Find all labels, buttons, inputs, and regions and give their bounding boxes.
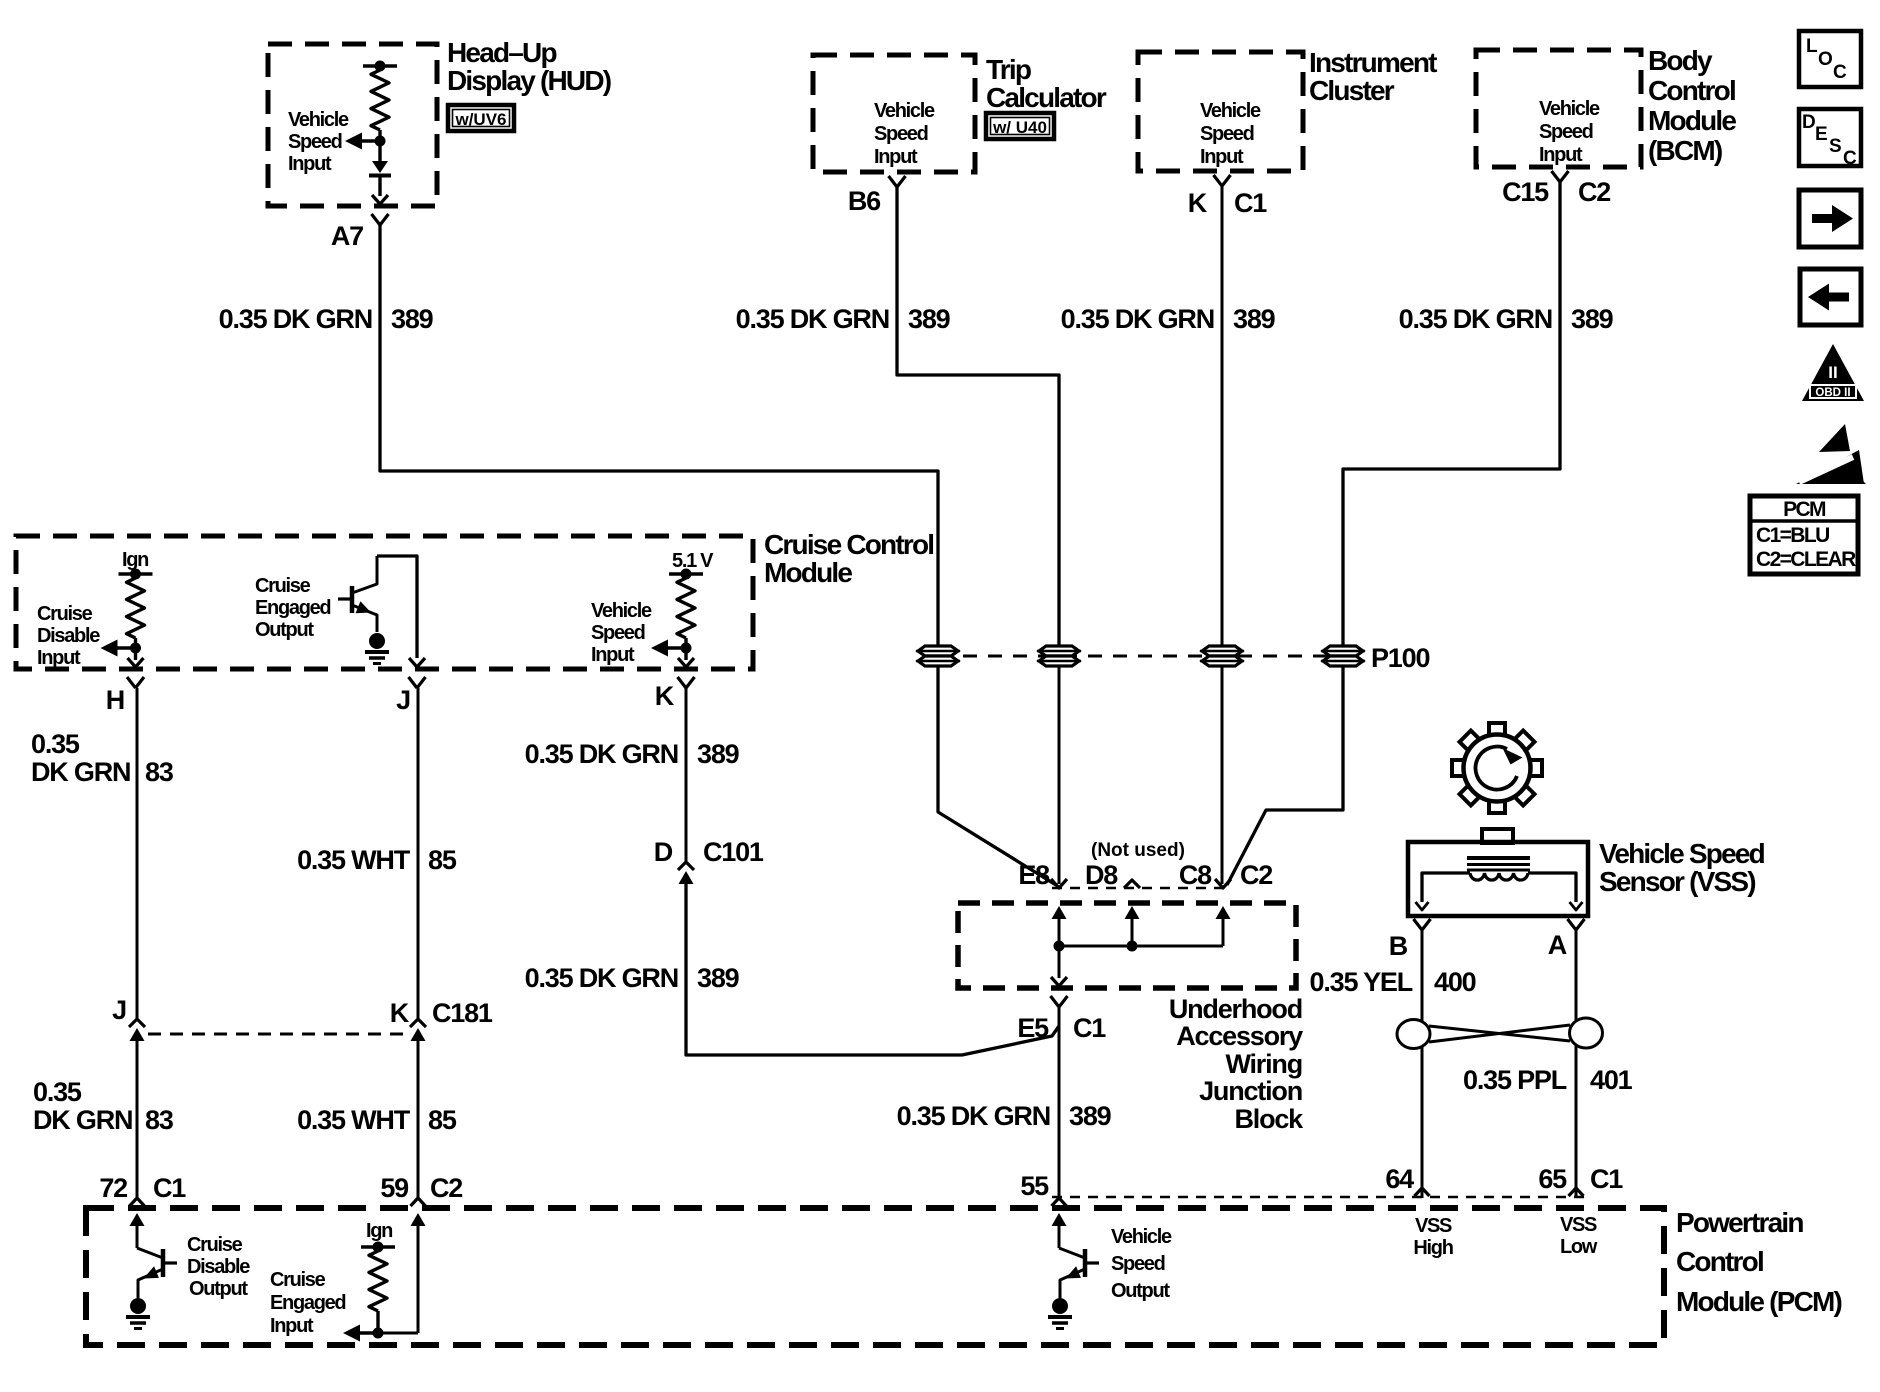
svg-text:Input: Input xyxy=(288,153,332,175)
connector entry PCM pin 55 xyxy=(1052,1198,1067,1248)
connector entry D8 (not used) xyxy=(1124,880,1140,919)
svg-text:Control: Control xyxy=(1648,75,1735,106)
wire: cruise K to C101 (0.35 DK GRN 389) xyxy=(685,688,688,862)
twisted pair symbol xyxy=(1397,1018,1603,1049)
svg-text:C181: C181 xyxy=(432,998,493,1028)
svg-text:0.35 DK GRN: 0.35 DK GRN xyxy=(219,304,372,334)
svg-text:Sensor (VSS): Sensor (VSS) xyxy=(1599,866,1755,897)
svg-text:C1: C1 xyxy=(1590,1164,1623,1194)
junction dot (D8 bus) xyxy=(1127,941,1138,952)
svg-text:Speed: Speed xyxy=(1200,123,1254,145)
svg-text:0.35 DK GRN: 0.35 DK GRN xyxy=(1061,304,1214,334)
in-line connector C181 (right half) xyxy=(410,1019,426,1041)
label Vehicle Speed Output xyxy=(1111,1226,1172,1302)
pin A7 connector half xyxy=(372,214,389,225)
svg-text:55: 55 xyxy=(1020,1171,1049,1201)
svg-text:Vehicle: Vehicle xyxy=(1539,98,1600,120)
svg-text:0.35: 0.35 xyxy=(31,729,80,759)
svg-text:Body: Body xyxy=(1648,45,1713,76)
svg-text:E8: E8 xyxy=(1018,860,1050,890)
svg-text:0.35 WHT: 0.35 WHT xyxy=(297,1105,411,1135)
pin J connector half xyxy=(409,677,426,688)
svg-text:Vehicle Speed: Vehicle Speed xyxy=(1599,838,1765,869)
svg-text:83: 83 xyxy=(145,1105,174,1135)
svg-text:(BCM): (BCM) xyxy=(1648,135,1722,166)
svg-text:Output: Output xyxy=(255,619,314,641)
svg-text:Low: Low xyxy=(1560,1236,1598,1258)
svg-text:5.1 V: 5.1 V xyxy=(672,550,714,572)
diode-clamp symbol inside HUD xyxy=(369,141,391,196)
svg-text:389: 389 xyxy=(1069,1101,1112,1131)
grommet P100 (wire 1) xyxy=(916,646,960,666)
reluctor gear icon (VSS) xyxy=(1452,723,1542,813)
svg-text:Calculator: Calculator xyxy=(986,82,1107,113)
svg-text:0.35 WHT: 0.35 WHT xyxy=(297,845,411,875)
resistor: vehicle speed input pull-up (cruise) xyxy=(669,569,703,649)
module box: Trip Calculator xyxy=(813,54,1107,172)
svg-text:0.35 DK GRN: 0.35 DK GRN xyxy=(897,1101,1050,1131)
svg-text:Trip: Trip xyxy=(986,54,1031,85)
svg-text:389: 389 xyxy=(908,304,951,334)
svg-text:389: 389 xyxy=(391,304,434,334)
svg-text:C2=CLEAR: C2=CLEAR xyxy=(1756,548,1856,571)
Vehicle Speed Sensor body xyxy=(1408,829,1765,916)
svg-text:J: J xyxy=(112,995,126,1025)
svg-text:Output: Output xyxy=(1111,1280,1170,1302)
svg-text:C: C xyxy=(1843,148,1857,169)
wire label 0.35 DK GRN 83 (lower) xyxy=(33,1077,174,1135)
svg-text:VSS: VSS xyxy=(1560,1214,1597,1236)
svg-text:Output: Output xyxy=(189,1278,248,1300)
icon: PCM connector legend xyxy=(1750,496,1858,574)
svg-text:0.35 DK GRN: 0.35 DK GRN xyxy=(525,963,678,993)
svg-text:D8: D8 xyxy=(1085,860,1118,890)
thin connector dashed line (PCM C1) xyxy=(1052,1196,1590,1198)
junction dot (E8 bus) xyxy=(1054,941,1065,952)
svg-text:72: 72 xyxy=(99,1173,127,1203)
svg-text:Engaged: Engaged xyxy=(270,1292,345,1314)
svg-text:Speed: Speed xyxy=(874,123,928,145)
svg-text:B: B xyxy=(1389,931,1408,961)
module box: Head-Up Display (HUD) xyxy=(268,37,611,206)
svg-text:C1: C1 xyxy=(1234,188,1267,218)
svg-text:K: K xyxy=(390,998,410,1028)
svg-text:85: 85 xyxy=(428,1105,457,1135)
svg-text:PCM: PCM xyxy=(1783,498,1826,521)
module box: Powertrain Control Module (PCM) xyxy=(86,1207,1842,1345)
svg-text:Block: Block xyxy=(1234,1104,1304,1134)
arrow + label Cruise Engaged Input xyxy=(270,1269,384,1342)
wire label 0.35 YEL 400 xyxy=(1310,967,1476,997)
svg-text:Vehicle: Vehicle xyxy=(1111,1226,1172,1248)
svg-text:C1: C1 xyxy=(1073,1013,1106,1043)
grommet P100 (wire 3) xyxy=(1200,646,1244,666)
svg-text:A: A xyxy=(1548,930,1567,960)
icon: back arrow box xyxy=(1800,269,1861,325)
svg-text:Input: Input xyxy=(1539,144,1583,166)
wire: cruise H to C181 (0.35 DK GRN 83) xyxy=(136,688,139,1019)
svg-text:C8: C8 xyxy=(1179,860,1212,890)
svg-text:Cruise: Cruise xyxy=(255,575,311,597)
wire: coil to pin A (internal) xyxy=(1528,873,1583,910)
svg-text:B6: B6 xyxy=(848,186,881,216)
svg-text:Speed: Speed xyxy=(1539,121,1593,143)
svg-text:J: J xyxy=(396,685,410,715)
wire label 0.35 DK GRN 389 (cruise K) xyxy=(525,739,740,769)
svg-text:E5: E5 xyxy=(1017,1013,1049,1043)
svg-text:Input: Input xyxy=(874,146,918,168)
connector entry C8/C2 xyxy=(1215,879,1231,919)
wire label 0.35 DK GRN 389 (BCM) xyxy=(1399,304,1614,334)
svg-text:389: 389 xyxy=(697,739,740,769)
resistor (HUD vehicle speed input pull-up) xyxy=(363,61,397,142)
svg-text:C2: C2 xyxy=(1578,177,1610,207)
svg-text:II: II xyxy=(1828,363,1837,382)
svg-text:P100: P100 xyxy=(1371,643,1429,673)
option box w/UV6 xyxy=(448,105,514,131)
wire label 0.35 DK GRN 389 (B6) xyxy=(736,304,951,334)
grommet P100 (wire 4) xyxy=(1321,646,1365,666)
wire: P100 to junction block E8 (branch 1) xyxy=(938,666,1056,885)
pin C15 / C2 connector half xyxy=(1552,171,1569,182)
svg-text:Ign: Ign xyxy=(122,549,148,571)
ground (cruise disable output emitter) xyxy=(126,1298,150,1329)
svg-text:K: K xyxy=(655,681,675,711)
module box: Instrument Cluster xyxy=(1138,47,1437,171)
wire: C101 to junction block E5 node xyxy=(686,884,1059,1055)
svg-text:Vehicle: Vehicle xyxy=(1200,100,1261,122)
wire: Trip Calculator B6 to P100 xyxy=(897,187,1059,646)
svg-text:High: High xyxy=(1413,1237,1452,1259)
svg-text:(Not used): (Not used) xyxy=(1091,840,1185,861)
wire: P100 to junction block E8 (branch 2) xyxy=(1058,666,1061,884)
svg-text:0.35 DK GRN: 0.35 DK GRN xyxy=(1399,304,1552,334)
svg-text:Ign: Ign xyxy=(366,1220,392,1242)
svg-text:DK GRN: DK GRN xyxy=(31,757,130,787)
label: Vehicle Speed Input (Trip Calculator) xyxy=(874,100,935,168)
svg-text:Cruise Control: Cruise Control xyxy=(764,529,933,560)
arrow + label Cruise Disable Input xyxy=(37,603,141,669)
svg-text:H: H xyxy=(106,685,124,715)
inductive pickup core (VSS) xyxy=(1467,858,1530,870)
svg-text:389: 389 xyxy=(697,963,740,993)
arrow + label Vehicle Speed Input (cruise) xyxy=(591,600,692,666)
label Cruise Engaged Output xyxy=(255,575,330,641)
arrow to Vehicle Speed Input label (HUD) xyxy=(345,133,386,150)
pin K connector half xyxy=(678,677,695,688)
svg-text:Vehicle: Vehicle xyxy=(591,600,652,622)
connector exit at cruise pin H xyxy=(128,648,144,667)
transistor: cruise disable output (NPN) xyxy=(137,1248,177,1298)
svg-text:C1: C1 xyxy=(153,1173,186,1203)
svg-text:VSS: VSS xyxy=(1415,1215,1452,1237)
pin B connector half xyxy=(1414,919,1431,930)
transistor: vehicle speed output (NPN) xyxy=(1059,1248,1099,1298)
svg-text:Underhood: Underhood xyxy=(1169,994,1302,1024)
wire: bus to E5 exit xyxy=(1051,946,1067,986)
label VSS High xyxy=(1413,1215,1452,1259)
svg-text:Module: Module xyxy=(1648,105,1736,136)
svg-text:D: D xyxy=(654,837,673,867)
svg-text:0.35 YEL: 0.35 YEL xyxy=(1310,967,1413,997)
svg-text:Junction: Junction xyxy=(1199,1076,1302,1106)
dashed pass-through line P100 xyxy=(938,655,1343,658)
svg-text:Input: Input xyxy=(270,1315,314,1337)
svg-text:Speed: Speed xyxy=(288,131,342,153)
label VSS Low xyxy=(1560,1214,1598,1258)
wire label 0.35 PPL 401 xyxy=(1463,1065,1633,1095)
svg-text:C: C xyxy=(1833,62,1847,83)
svg-text:Input: Input xyxy=(1200,146,1244,168)
connector exit at cruise pin K xyxy=(678,648,694,667)
svg-text:w/UV6: w/UV6 xyxy=(454,110,506,129)
svg-text:400: 400 xyxy=(1434,967,1476,997)
pin H connector half xyxy=(127,677,144,688)
svg-text:C2: C2 xyxy=(1240,860,1272,890)
svg-text:Wiring: Wiring xyxy=(1225,1049,1302,1079)
wire: P100 to junction block C2 entry xyxy=(1227,666,1343,885)
svg-text:Control: Control xyxy=(1676,1246,1763,1277)
pickup coil (VSS) xyxy=(1470,873,1528,880)
pin B6 connector half xyxy=(889,176,906,187)
label Cruise Disable Output xyxy=(187,1234,250,1300)
svg-text:85: 85 xyxy=(428,845,457,875)
svg-text:L: L xyxy=(1806,36,1818,57)
svg-text:Instrument: Instrument xyxy=(1309,47,1437,78)
svg-text:Vehicle: Vehicle xyxy=(288,109,349,131)
svg-text:83: 83 xyxy=(145,757,174,787)
wire: BCM C2 to P100 xyxy=(1343,182,1560,646)
wire label 0.35 DK GRN 389 (E5 to PCM 55) xyxy=(897,1101,1112,1131)
pin E5 / C1 connector half xyxy=(1051,996,1068,1198)
svg-text:Module: Module xyxy=(764,557,852,588)
svg-text:A7: A7 xyxy=(331,221,363,251)
resistor: cruise engaged input (PCM) xyxy=(361,1242,395,1334)
icon: forward arrow box xyxy=(1799,190,1861,247)
connector entry PCM pin 65 xyxy=(1569,1188,1584,1196)
svg-text:C1=BLU: C1=BLU xyxy=(1756,524,1829,547)
module box: Cruise Control Module xyxy=(16,529,933,669)
svg-text:0.35: 0.35 xyxy=(33,1077,82,1107)
wire: P100 to junction block C8 xyxy=(1221,666,1224,884)
module box: Underhood Accessory Wiring Junction Block xyxy=(958,903,1304,1134)
svg-text:64: 64 xyxy=(1385,1164,1414,1194)
wire label 0.35 WHT 85 (lower) xyxy=(297,1105,457,1135)
svg-text:O: O xyxy=(1818,49,1833,70)
bus wire inside junction block xyxy=(1059,914,1223,946)
wire label 0.35 DK GRN 83 (upper) xyxy=(31,729,174,787)
connector entry PCM pin 64 xyxy=(1415,1188,1430,1196)
wire: HUD A7 to P100 (0.35 DK GRN 389) xyxy=(380,225,938,646)
svg-text:389: 389 xyxy=(1233,304,1276,334)
wire label 0.35 DK GRN 389 (cluster) xyxy=(1061,304,1276,334)
dashed connector line C181 xyxy=(148,1033,407,1036)
svg-text:Speed: Speed xyxy=(591,622,645,644)
svg-text:Input: Input xyxy=(37,647,81,669)
connector entry PCM pin 72 xyxy=(130,1198,145,1248)
svg-text:E: E xyxy=(1815,124,1828,145)
option box w/ U40 xyxy=(986,113,1054,139)
wire label 0.35 DK GRN 389 (to E5) xyxy=(525,963,740,993)
svg-text:Cruise: Cruise xyxy=(37,603,93,625)
svg-text:Module (PCM): Module (PCM) xyxy=(1676,1286,1842,1317)
svg-text:C2: C2 xyxy=(430,1173,462,1203)
svg-text:D: D xyxy=(1802,112,1816,133)
svg-text:Engaged: Engaged xyxy=(255,597,330,619)
icon: LOC box xyxy=(1799,31,1861,87)
svg-text:65: 65 xyxy=(1538,1164,1567,1194)
module box: Body Control Module (BCM) xyxy=(1476,45,1736,167)
in-line connector C101 xyxy=(678,862,694,884)
svg-text:0.35 DK GRN: 0.35 DK GRN xyxy=(525,739,678,769)
svg-text:401: 401 xyxy=(1590,1065,1633,1095)
label: Vehicle Speed Input (BCM) xyxy=(1539,98,1600,166)
wire label 0.35 DK GRN 389 (A7) xyxy=(219,304,434,334)
svg-text:Disable: Disable xyxy=(37,625,100,647)
connector exit at HUD edge xyxy=(372,195,388,204)
svg-text:S: S xyxy=(1829,136,1842,157)
svg-text:Cluster: Cluster xyxy=(1309,75,1395,106)
svg-text:Cruise: Cruise xyxy=(187,1234,243,1256)
resistor: cruise disable pull-up xyxy=(119,569,153,649)
icon: DESC box xyxy=(1799,109,1861,169)
pin A connector half xyxy=(1568,919,1585,930)
svg-text:Speed: Speed xyxy=(1111,1253,1165,1275)
svg-text:DK GRN: DK GRN xyxy=(33,1105,132,1135)
svg-text:C15: C15 xyxy=(1502,177,1549,207)
wire: VSS B to PCM 64 (0.35 YEL 400) xyxy=(1421,930,1424,1198)
svg-text:0.35 DK GRN: 0.35 DK GRN xyxy=(736,304,889,334)
wire: coil to pin B (internal) xyxy=(1416,873,1471,910)
svg-text:Accessory: Accessory xyxy=(1176,1021,1303,1051)
wire: VSS A to PCM 65 (0.35 PPL 401) xyxy=(1575,930,1578,1198)
svg-text:OBD II: OBD II xyxy=(1815,387,1850,399)
svg-text:Cruise: Cruise xyxy=(270,1269,326,1291)
svg-text:Input: Input xyxy=(591,644,635,666)
svg-text:Powertrain: Powertrain xyxy=(1676,1207,1803,1238)
wire: C181 to PCM pin 59 (0.35 WHT 85) xyxy=(417,1041,420,1198)
label: Vehicle Speed Input (HUD) xyxy=(288,109,349,175)
svg-text:K: K xyxy=(1188,188,1208,218)
wire: Instrument Cluster to P100 xyxy=(1221,186,1224,646)
icon: ESD symbol xyxy=(1796,424,1866,484)
svg-text:Disable: Disable xyxy=(187,1256,250,1278)
svg-text:0.35 PPL: 0.35 PPL xyxy=(1463,1065,1567,1095)
svg-text:Vehicle: Vehicle xyxy=(874,100,935,122)
svg-text:w/ U40: w/ U40 xyxy=(992,118,1047,137)
svg-text:Head–Up: Head–Up xyxy=(447,37,556,68)
grommet P100 (wire 2) xyxy=(1037,646,1081,666)
svg-text:389: 389 xyxy=(1571,304,1614,334)
connector exit at cruise pin J xyxy=(409,658,425,667)
connector entry E8 xyxy=(1051,879,1067,919)
thin connector dashed line (junction block top) xyxy=(1052,887,1232,889)
wire: collector to pin J xyxy=(377,556,417,658)
wire: cruise J to C181 (0.35 WHT 85) xyxy=(417,688,420,1019)
connector entry PCM pin 59 xyxy=(378,1198,426,1333)
svg-text:Display (HUD): Display (HUD) xyxy=(447,65,611,96)
pin K / C1 connector half xyxy=(1214,175,1231,186)
svg-text:C101: C101 xyxy=(703,837,764,867)
wire label 0.35 WHT 85 (upper) xyxy=(297,845,457,875)
svg-text:59: 59 xyxy=(380,1173,409,1203)
transistor: cruise engaged output (NPN) xyxy=(338,556,377,632)
icon: OBD II triangle xyxy=(1802,344,1864,401)
label: Vehicle Speed Input (Instrument Cluster) xyxy=(1200,100,1261,168)
ground (vehicle speed output emitter) xyxy=(1048,1298,1072,1329)
ground (cruise engaged output emitter) xyxy=(365,633,389,664)
in-line connector C181 (left half) xyxy=(129,1019,145,1041)
wire: C181 to PCM pin 72 (0.35 DK GRN 83) xyxy=(136,1041,139,1198)
